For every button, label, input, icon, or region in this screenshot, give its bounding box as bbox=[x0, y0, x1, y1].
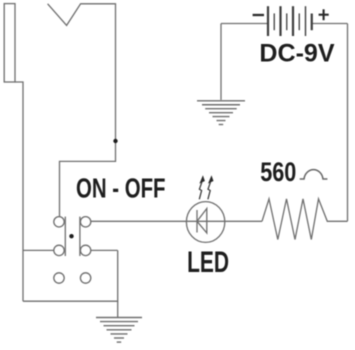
svg-text:LED: LED bbox=[187, 246, 229, 279]
svg-text:560: 560 bbox=[260, 156, 296, 187]
svg-text:ON - OFF: ON - OFF bbox=[76, 173, 166, 204]
svg-text:DC-9V: DC-9V bbox=[259, 40, 334, 68]
